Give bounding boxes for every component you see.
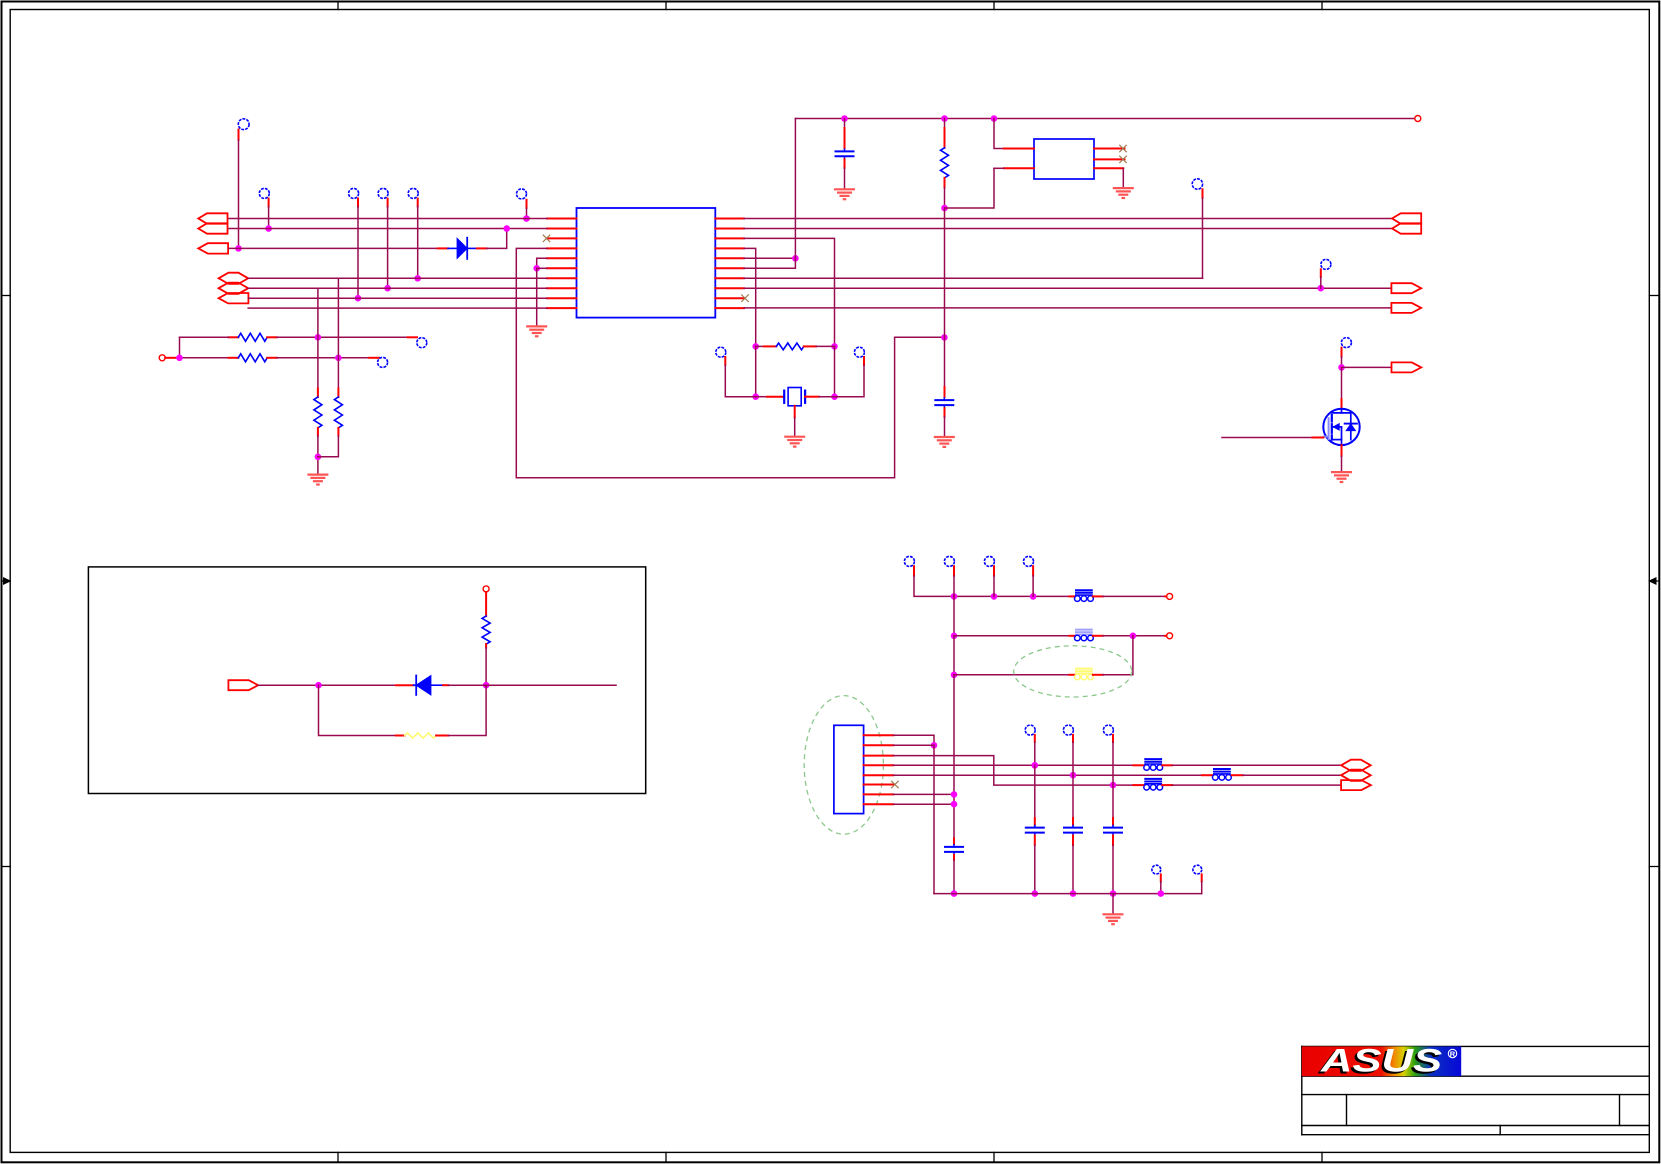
wire gate [1222, 437, 1323, 439]
resistor R5 [941, 119, 949, 188]
ground [1113, 188, 1134, 198]
power pin P3 [483, 586, 489, 592]
no-connect J1 p6 [892, 781, 899, 788]
inductor FB3 (highlighted) [1069, 669, 1102, 680]
wire [953, 576, 955, 597]
node circle K1 [1025, 725, 1035, 742]
node circle X2 [854, 347, 864, 365]
wire row R7 [744, 277, 1203, 279]
inductor FB1 [1069, 590, 1102, 601]
connector arrow QD [1392, 362, 1422, 372]
IC U2 [1034, 139, 1094, 179]
U1 pin stubs [547, 219, 744, 309]
wire [1342, 366, 1392, 368]
node circle K2 [1063, 725, 1073, 742]
no-connect pin R9 [742, 295, 749, 302]
wire [794, 406, 796, 436]
wire R5/R6 [744, 255, 799, 268]
wire [893, 744, 934, 746]
wire [951, 596, 958, 639]
wire [235, 140, 242, 252]
wire [1158, 882, 1165, 897]
wire row L8 [248, 287, 547, 289]
resistor R8 (highlighted) [396, 733, 448, 738]
connector arrow A [198, 213, 227, 223]
wire riser to rail [794, 119, 796, 259]
wire [1341, 367, 1343, 407]
inductor FB2 (highlighted) [1069, 630, 1102, 641]
power pin P2 [1415, 116, 1421, 122]
resistor R3 [314, 388, 322, 435]
ground [834, 189, 855, 199]
ground [934, 437, 955, 447]
capacitor C6 [1103, 742, 1123, 897]
U2 pin stubs [1004, 149, 1125, 169]
wire [744, 248, 759, 349]
connector arrow B [198, 223, 227, 233]
highlight ellipse 2 [804, 696, 883, 835]
wire bottom rail [934, 893, 1202, 895]
wire row L1 [229, 218, 547, 220]
ground [526, 326, 547, 336]
svg-text:ASUS: ASUS [1320, 1043, 1443, 1079]
ASUS logo [1302, 1043, 1461, 1081]
diode D2 [396, 676, 448, 695]
wire [951, 636, 958, 678]
net hexagon D [219, 273, 249, 284]
wire row L7 [248, 277, 547, 279]
node circle K3 [1103, 725, 1113, 742]
wire [831, 346, 838, 400]
wire [533, 258, 547, 271]
wire [933, 745, 935, 893]
no-connect U2 R2 [1120, 156, 1127, 163]
connector arrow C [198, 243, 228, 253]
wire [355, 207, 362, 302]
node circle B3 [984, 556, 994, 575]
wire [448, 685, 486, 735]
wire [180, 336, 229, 338]
wire [994, 167, 1004, 169]
net hexagon LAN1 [1341, 760, 1371, 771]
wire [945, 168, 995, 208]
wire [1103, 595, 1165, 597]
net hexagon E [219, 283, 249, 294]
power pin P4 [1165, 593, 1173, 599]
node circle X1 [716, 347, 726, 365]
node circle B1 [904, 556, 914, 575]
wire [954, 635, 1069, 637]
wire [835, 365, 865, 397]
power pin P1 [159, 355, 178, 361]
node circle K5 [1193, 865, 1202, 881]
wire [483, 648, 490, 689]
node circle T2 [259, 188, 269, 206]
resistor R7 [482, 592, 490, 648]
ground [784, 437, 805, 447]
wire [1032, 576, 1034, 597]
inductor FB6 [1202, 769, 1243, 780]
connector arrow IN [228, 680, 258, 690]
detail box [88, 567, 645, 794]
capacitor C4 [1025, 742, 1045, 897]
wire [319, 685, 397, 735]
capacitor C3 [944, 838, 964, 896]
inductor FB4 [1133, 779, 1172, 790]
wire [337, 278, 339, 388]
resistor R6 [756, 343, 835, 350]
wire [744, 238, 838, 349]
resistor R4 [334, 388, 342, 435]
wire [384, 207, 391, 292]
connector J1 [834, 725, 864, 813]
capacitor C2 [934, 337, 954, 436]
wire [318, 436, 339, 457]
wire [1172, 784, 1341, 786]
node circle K4 [1152, 865, 1161, 881]
ground [1331, 472, 1352, 482]
wire [315, 436, 322, 475]
wire [954, 674, 1069, 676]
resistor R1 [229, 354, 277, 362]
node circle Y2c [1321, 259, 1331, 277]
IC U1 [577, 208, 716, 318]
wire row L2 [229, 228, 547, 230]
wire [893, 772, 1202, 779]
wire [994, 119, 1004, 149]
wire [523, 208, 530, 222]
wire [953, 675, 955, 839]
wire [1338, 357, 1345, 371]
wire row L9 [248, 297, 547, 299]
wire [414, 207, 421, 282]
wire [277, 334, 408, 341]
capacitor C1 [835, 119, 855, 189]
node circle B4 [1024, 556, 1034, 575]
wire [179, 337, 181, 358]
wire row R8 [744, 285, 1391, 292]
wire [1172, 764, 1341, 766]
connector arrow R8 [1391, 283, 1421, 293]
wire [176, 355, 228, 362]
connector arrow F [219, 293, 249, 303]
wire [752, 346, 759, 400]
wire source [1341, 445, 1343, 472]
node circle Y1c [1192, 179, 1202, 198]
wire [265, 207, 272, 232]
wire [941, 188, 948, 212]
wire D1 cathode to row L2 [477, 225, 510, 248]
wire [1320, 277, 1322, 288]
ground [307, 475, 328, 485]
wire row L10 [248, 307, 547, 309]
wire loop [516, 248, 947, 477]
node circle T7 [408, 337, 427, 347]
wire [317, 288, 319, 388]
title block [1302, 1046, 1650, 1134]
wire [893, 735, 937, 748]
connector double arrow R12 [1392, 213, 1421, 233]
wire [448, 684, 486, 686]
wire [1243, 774, 1341, 776]
J1 pin stubs [864, 735, 894, 804]
wire [893, 801, 957, 808]
wire [893, 762, 1133, 769]
wire top rail [795, 115, 1414, 122]
svg-text:R: R [1450, 1049, 1456, 1058]
wire [944, 208, 946, 337]
transistor Q1 [1323, 409, 1359, 445]
node circle T4 [378, 188, 388, 206]
node circle T3 [349, 188, 359, 206]
node circle T6 [517, 189, 527, 208]
node circle T8 [369, 357, 387, 367]
wire [914, 576, 1069, 600]
no-connect pin L3 [543, 235, 550, 242]
capacitor C5 [1063, 742, 1083, 897]
wire [1103, 636, 1133, 675]
wire [725, 365, 755, 397]
wire [1103, 633, 1165, 640]
frame centre arrows [2, 578, 1660, 584]
crystal Y1 [756, 388, 835, 406]
node circle B2 [944, 556, 954, 575]
diode D1 [438, 238, 477, 259]
wire row R2 [744, 228, 1392, 230]
wire row R1 [744, 218, 1392, 220]
power pin P5 [1165, 633, 1173, 639]
inductor FB5 [1133, 759, 1172, 770]
wire [277, 355, 370, 362]
wire row R10 [744, 307, 1391, 309]
node circle QD [1341, 338, 1351, 357]
wire row D1 anode [229, 247, 438, 249]
wire [486, 684, 616, 686]
wire [1202, 198, 1204, 278]
ground [1103, 914, 1124, 924]
wire [1112, 894, 1114, 914]
wire [893, 756, 1133, 789]
resistor R2 [229, 333, 277, 341]
node circle T5 [408, 188, 418, 206]
wire [1201, 882, 1203, 894]
highlight ellipse 1 [1014, 646, 1132, 697]
wire [258, 682, 396, 689]
no-connect U2 R1 [1120, 145, 1127, 152]
wire [1122, 168, 1124, 187]
connector arrow LAN3 [1341, 780, 1371, 790]
wire [536, 268, 538, 326]
wire [993, 576, 995, 597]
connector arrow R10 [1391, 303, 1421, 313]
net hexagon LAN2 [1341, 770, 1371, 781]
wire [893, 791, 957, 798]
node circle T1 [238, 119, 249, 140]
